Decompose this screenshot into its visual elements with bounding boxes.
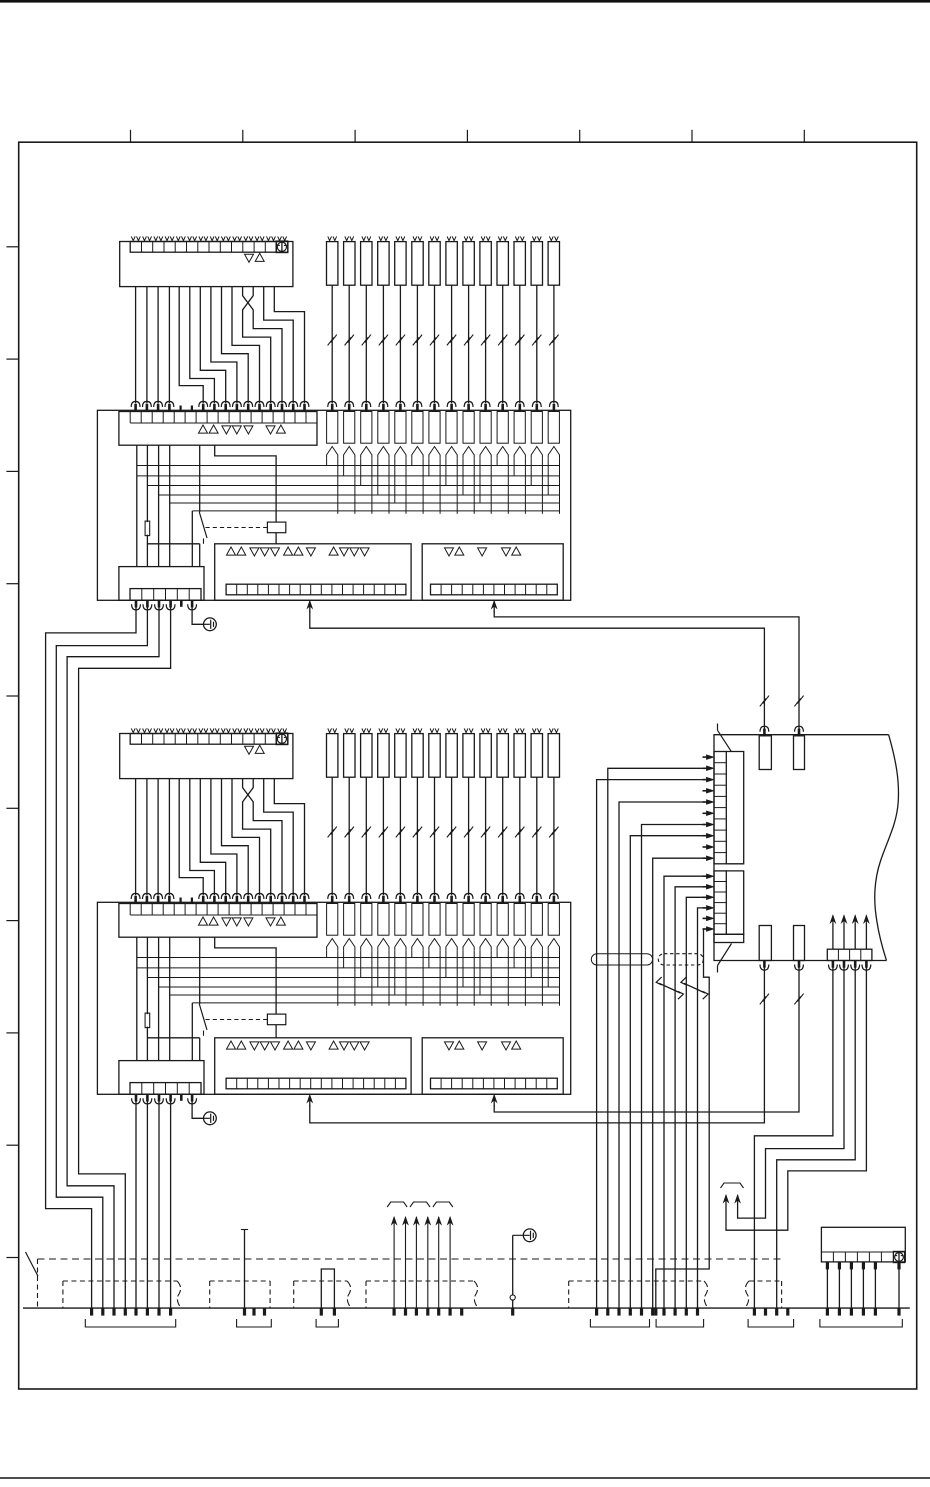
- B1 pin dividers: [236, 584, 238, 595]
- fuse terminal hooks: [498, 236, 502, 240]
- up arrow off-page: [449, 1224, 451, 1308]
- bus tick: [651, 1308, 654, 1316]
- wire crossing mark: [362, 337, 368, 345]
- bus tick: [511, 1308, 514, 1316]
- fuse terminal hooks: [413, 728, 417, 732]
- fuse wire: [348, 777, 350, 895]
- wire crossing mark: [549, 337, 555, 345]
- fusible link 22: [344, 734, 355, 778]
- fork leg L: [394, 458, 396, 503]
- unit aux exit arrows: [832, 960, 835, 968]
- connector D body: [821, 1227, 905, 1262]
- fuse holder: [412, 904, 423, 936]
- fork leg L: [496, 950, 498, 957]
- wire harness to upper strip: [630, 836, 705, 954]
- connector D pin stub: [862, 1262, 865, 1270]
- fork split: [480, 939, 491, 951]
- unit lower strip bracket: [726, 871, 743, 934]
- fork leg R: [388, 458, 390, 514]
- relay coil: [267, 1014, 285, 1025]
- connector A-1 terminal hooks: [131, 236, 135, 240]
- fuse holder: [395, 412, 406, 444]
- fuse terminal hooks: [532, 728, 536, 732]
- fuse wire: [536, 285, 538, 403]
- wire right block to B1': [310, 966, 765, 1123]
- fork leg L: [343, 950, 345, 968]
- fuse wire: [485, 285, 487, 403]
- fuse holder: [446, 904, 457, 936]
- fork leg L: [530, 458, 532, 485]
- ground symbol: [204, 1117, 210, 1119]
- wire crossing mark: [498, 337, 504, 345]
- fuse holder: [361, 412, 372, 444]
- fuse wire: [365, 285, 367, 403]
- fork leg L: [411, 950, 413, 957]
- fuse holder: [429, 412, 440, 444]
- bus tick: [617, 1308, 620, 1316]
- fusible link 23: [361, 734, 372, 778]
- fuse terminal hooks: [379, 728, 383, 732]
- relay box B2-2: [422, 1038, 563, 1095]
- wire A-B straight: [146, 287, 148, 404]
- bus line: [192, 1002, 560, 1004]
- up arrow off-page a: [735, 1195, 740, 1203]
- fuse holder: [344, 412, 355, 444]
- left tick 3: [6, 470, 18, 472]
- top tick 6: [691, 130, 693, 142]
- resistor R: [145, 1013, 150, 1028]
- bus tick: [437, 1308, 440, 1316]
- connector D pin stub: [897, 1262, 900, 1270]
- connector D pin wire: [826, 1262, 828, 1308]
- fork split: [344, 447, 355, 459]
- fuse wire: [434, 777, 436, 895]
- wire A-B stepped: [274, 779, 304, 896]
- fuse holder: [395, 904, 406, 936]
- fork leg R: [337, 458, 339, 514]
- bracket center 2: [656, 1319, 704, 1327]
- junction block B-2 outline: [97, 902, 570, 1094]
- connector A-2 triangle dn: [245, 746, 254, 754]
- fork leg R: [405, 458, 407, 514]
- wire A-B stepped: [190, 779, 215, 896]
- bus tick: [606, 1308, 609, 1316]
- fuse holder: [344, 904, 355, 936]
- fuse terminal hooks: [515, 236, 519, 240]
- wire A-B crossover a: [243, 779, 282, 896]
- fuse wire: [519, 777, 521, 895]
- fuse wire: [434, 285, 436, 403]
- bus line: [192, 510, 560, 512]
- fork split: [531, 447, 542, 459]
- top tick 5: [579, 130, 581, 142]
- bus tick: [764, 1308, 767, 1316]
- block B-2 triangles: [199, 917, 208, 925]
- block B-1 pin entry arrows: [134, 404, 137, 412]
- connector A-2 pin row: [130, 734, 288, 745]
- fork leg R: [354, 458, 356, 514]
- fuse terminal hooks: [447, 236, 451, 240]
- fuse wire: [536, 777, 538, 895]
- bus tick: [112, 1308, 115, 1316]
- fuse wire: [451, 285, 453, 403]
- fork leg L: [326, 950, 328, 957]
- bus tick: [134, 1308, 137, 1316]
- connector A-1 option mark: [276, 241, 288, 253]
- connector D pin wire: [874, 1262, 876, 1308]
- B1-1 pin row: [226, 584, 406, 595]
- fuse terminal hooks: [362, 728, 366, 732]
- fork leg L: [445, 950, 447, 977]
- wire crossing mark: [362, 829, 368, 837]
- wire A-B stepped: [222, 287, 249, 404]
- wire crossing mark: [515, 337, 521, 345]
- fuse wire: [416, 777, 418, 895]
- fork split: [378, 939, 389, 951]
- left tick 4: [6, 583, 18, 585]
- fuse terminal hooks: [464, 236, 468, 240]
- fuse holder: [480, 412, 491, 444]
- unit aux up arrows: [832, 922, 834, 949]
- wire harness down: [674, 954, 676, 1308]
- fuse wire: [331, 777, 333, 895]
- fuse holder: [361, 904, 372, 936]
- fuse wire: [468, 285, 470, 403]
- left tick 5: [6, 695, 18, 697]
- wire harness down: [618, 954, 620, 1308]
- unit bottom pin exits: [763, 960, 766, 968]
- bus tick: [662, 1308, 665, 1316]
- dashed connector box 4: [365, 1281, 367, 1308]
- wire harness to lower strip: [686, 897, 705, 953]
- wire block-internal: [191, 511, 193, 567]
- wire harness down: [596, 954, 598, 1308]
- fuse holder: [531, 412, 542, 444]
- fuse holder: [548, 904, 559, 936]
- wire block-internal: [191, 1003, 193, 1061]
- fork leg R: [507, 950, 509, 1006]
- fork leg R: [473, 950, 475, 1006]
- bus tick: [838, 1308, 841, 1316]
- fuse terminal hooks: [413, 236, 417, 240]
- wire A-B stepped: [264, 287, 294, 404]
- fork leg L: [377, 950, 379, 987]
- pin block exit arrows: [135, 1094, 138, 1102]
- bus tick: [753, 1308, 756, 1316]
- wire A-B stepped: [179, 287, 203, 404]
- fork split: [548, 447, 559, 459]
- fuse terminal hooks: [362, 236, 366, 240]
- fuse holder: [429, 904, 440, 936]
- firewall slash: [26, 1252, 39, 1276]
- fork leg L: [445, 458, 447, 485]
- wire harness to upper strip: [653, 858, 706, 954]
- bus tick: [393, 1308, 396, 1316]
- bus tick: [897, 1308, 900, 1316]
- fuse holder: [497, 904, 508, 936]
- up arrow off-page b: [723, 1195, 728, 1203]
- bracket center 1: [590, 1319, 649, 1327]
- pin block dividers: [141, 589, 143, 601]
- connector D pin row: [821, 1251, 905, 1253]
- block B-2 top pin row: [130, 914, 317, 916]
- ground symbol mid: [513, 1234, 530, 1236]
- top tick 3: [354, 130, 356, 142]
- fork leg R: [507, 458, 509, 514]
- wire crossing mark: [760, 996, 766, 1004]
- unit upper strip cell dividers: [714, 762, 726, 764]
- block B-1 triangles: [199, 425, 208, 433]
- wire A-B stepped: [274, 287, 304, 404]
- wire block-internal: [136, 937, 138, 1060]
- connector A-2 option mark: [276, 733, 288, 745]
- fuse wire: [382, 777, 384, 895]
- connector A-2 triangle up: [255, 745, 264, 753]
- block B-2 pin entry arrows: [134, 896, 137, 904]
- single wire mid: [244, 1230, 246, 1309]
- fuse wire: [331, 285, 333, 403]
- up arrow off-page: [438, 1224, 440, 1308]
- fuse terminal hooks: [328, 236, 332, 240]
- fusible link 210: [480, 734, 491, 778]
- fork leg L: [377, 458, 379, 495]
- control unit outline: [714, 735, 889, 961]
- brace pair 2: [410, 1202, 430, 1207]
- relay box B1-1: [215, 544, 411, 601]
- wire to ground bus: [135, 1100, 137, 1308]
- up arrow off-page: [415, 1224, 417, 1308]
- fusible link 25: [395, 734, 406, 778]
- fork leg R: [490, 458, 492, 514]
- fusible link 29: [463, 734, 474, 778]
- connector D pin stub: [874, 1262, 877, 1270]
- pin block row: [130, 1083, 201, 1095]
- fork leg L: [513, 458, 515, 476]
- fuse terminal hooks: [345, 728, 349, 732]
- bus tick: [320, 1308, 323, 1316]
- B1 pin dividers: [236, 1078, 238, 1089]
- fork split: [395, 939, 406, 951]
- unit aux cell row: [827, 949, 872, 960]
- fork split: [463, 447, 474, 459]
- wire crossing mark: [549, 829, 555, 837]
- fork leg L: [547, 458, 549, 495]
- connector A-2 pin dividers: [141, 734, 143, 745]
- harness marker solid: [591, 954, 652, 965]
- wire crossing mark: [396, 337, 402, 345]
- bus tick: [640, 1308, 643, 1316]
- block B-1 lower-left pin block: [119, 567, 204, 601]
- fork split: [514, 939, 525, 951]
- fuse holder: [327, 904, 338, 936]
- bus tick: [263, 1308, 266, 1316]
- bus tick: [404, 1308, 407, 1316]
- B2-1 pin row: [431, 584, 558, 595]
- wire A-B straight: [157, 287, 159, 404]
- fork leg L: [428, 458, 430, 476]
- wire crossing mark: [464, 829, 470, 837]
- fork split: [395, 447, 406, 459]
- fuse terminal hooks: [515, 728, 519, 732]
- relay coil: [267, 522, 285, 533]
- left tick 2: [6, 358, 18, 360]
- wire crossing mark: [379, 337, 385, 345]
- fork leg L: [462, 950, 464, 987]
- wire harness down: [641, 954, 643, 1308]
- wire long left run: [79, 606, 171, 1308]
- wire aux 3: [777, 966, 856, 1308]
- fork leg L: [496, 458, 498, 465]
- bus tick: [101, 1308, 104, 1316]
- bus line: [159, 986, 560, 988]
- wire crossing mark: [413, 337, 419, 345]
- bracket mid group: [237, 1319, 272, 1327]
- bus tick: [685, 1308, 688, 1316]
- bus line: [137, 957, 560, 959]
- wire harness down: [607, 954, 609, 1308]
- dashed connector box 3: [293, 1281, 295, 1308]
- connector D bracket: [820, 1319, 902, 1327]
- wire link: [147, 543, 199, 545]
- fork split: [327, 939, 338, 951]
- wire crossing mark: [447, 829, 453, 837]
- wire A-B stepped: [179, 779, 203, 896]
- fork leg R: [354, 950, 356, 1006]
- wire block-internal: [169, 445, 171, 566]
- fuse holder: [480, 904, 491, 936]
- wire A-B straight: [135, 779, 137, 896]
- fork leg R: [388, 950, 390, 1006]
- block B-2 top sub-block: [119, 904, 317, 938]
- wire B1 to right block: [310, 611, 765, 729]
- unit upper strip bracket: [726, 752, 743, 864]
- wire A-B straight: [168, 779, 170, 896]
- bus tick: [786, 1308, 789, 1316]
- wire crossing mark: [481, 337, 487, 345]
- left tick 9: [6, 1144, 18, 1146]
- dashed drop left: [37, 1259, 39, 1308]
- fuse wire: [399, 777, 401, 895]
- fork split: [480, 447, 491, 459]
- junction block B-1 outline: [97, 410, 570, 600]
- fork leg R: [456, 950, 458, 1006]
- fusible link 111: [497, 242, 508, 286]
- bus tick: [146, 1308, 149, 1316]
- fusible link 212: [514, 734, 525, 778]
- fork split: [429, 939, 440, 951]
- fuse wire: [485, 777, 487, 895]
- fuse holder: [378, 904, 389, 936]
- wire A-B stepped: [190, 287, 215, 404]
- dashed connector box 6: [745, 1281, 749, 1308]
- top tick 2: [242, 130, 244, 142]
- left tick 1: [6, 246, 18, 248]
- fusible link 12: [344, 242, 355, 286]
- fork leg R: [524, 458, 526, 514]
- fork split: [412, 939, 423, 951]
- fusible link 112: [514, 242, 525, 286]
- fusible link 27: [429, 734, 440, 778]
- wire harness down: [652, 954, 654, 1308]
- wire long left run: [56, 606, 147, 1308]
- brace over arrows: [721, 1183, 744, 1188]
- fuse terminal hooks: [379, 236, 383, 240]
- fusible link 15: [395, 242, 406, 286]
- fuse wire: [502, 285, 504, 403]
- bus tick: [449, 1308, 452, 1316]
- bus tick: [157, 1308, 160, 1316]
- wire A-B stepped: [264, 779, 294, 896]
- unit top pin 2: [794, 736, 805, 770]
- wire link v: [199, 1038, 201, 1061]
- wire block-internal: [158, 937, 160, 1060]
- fuse terminal hooks: [549, 236, 553, 240]
- unit switch lever top: [717, 724, 719, 731]
- connector A-1 pin row: [130, 242, 288, 253]
- wire A-B straight: [146, 779, 148, 896]
- up arrow off-page: [405, 1224, 407, 1308]
- wire crossing mark: [413, 829, 419, 837]
- wire block-internal: [146, 445, 148, 566]
- bus tick: [696, 1308, 699, 1316]
- top tick 1: [130, 130, 132, 142]
- wire to ground bus: [158, 1100, 160, 1308]
- wire long left run: [67, 606, 159, 1308]
- fork leg R: [439, 950, 441, 1006]
- fuse holder: [463, 904, 474, 936]
- unit aux cell dividers: [837, 949, 839, 960]
- wire to ground bus: [170, 1100, 172, 1308]
- wire crossing mark: [379, 829, 385, 837]
- fusible link 214: [548, 734, 559, 778]
- wire block-internal: [146, 937, 148, 1060]
- fork leg R: [524, 950, 526, 1006]
- wire harness to upper strip: [597, 780, 706, 954]
- fusible link 16: [412, 242, 423, 286]
- fusible link 213: [531, 734, 542, 778]
- bus tick: [252, 1308, 255, 1316]
- unit top pin 1: [759, 736, 771, 770]
- fusible link 13: [361, 242, 372, 286]
- fuse terminal hooks: [549, 728, 553, 732]
- fuse holder: [548, 412, 559, 444]
- fusible link 110: [480, 242, 491, 286]
- fuse terminal hooks: [447, 728, 451, 732]
- bus tick: [90, 1308, 93, 1316]
- top bar: [0, 0, 930, 3]
- unit bottom pin 2: [794, 926, 805, 961]
- fuse holder: [531, 904, 542, 936]
- bus line: [137, 967, 560, 969]
- fuse wire: [451, 777, 453, 895]
- fork split: [497, 939, 508, 951]
- fork split: [327, 447, 338, 459]
- wire crossing mark: [447, 337, 453, 345]
- wire A-B crossover a: [243, 287, 282, 404]
- wire B2 to right block: [494, 611, 799, 729]
- bus line: [147, 977, 560, 979]
- wire crossing mark: [345, 829, 351, 837]
- fork leg L: [479, 458, 481, 503]
- unit top pin entries: [763, 729, 766, 737]
- wire aux 1: [754, 966, 833, 1308]
- fuse holder: [514, 412, 525, 444]
- top tick 4: [466, 130, 468, 142]
- wire harness to lower strip: [664, 876, 706, 954]
- fork split: [514, 447, 525, 459]
- unit switch lever bottom: [718, 944, 732, 966]
- dashed firewall line: [38, 1258, 782, 1260]
